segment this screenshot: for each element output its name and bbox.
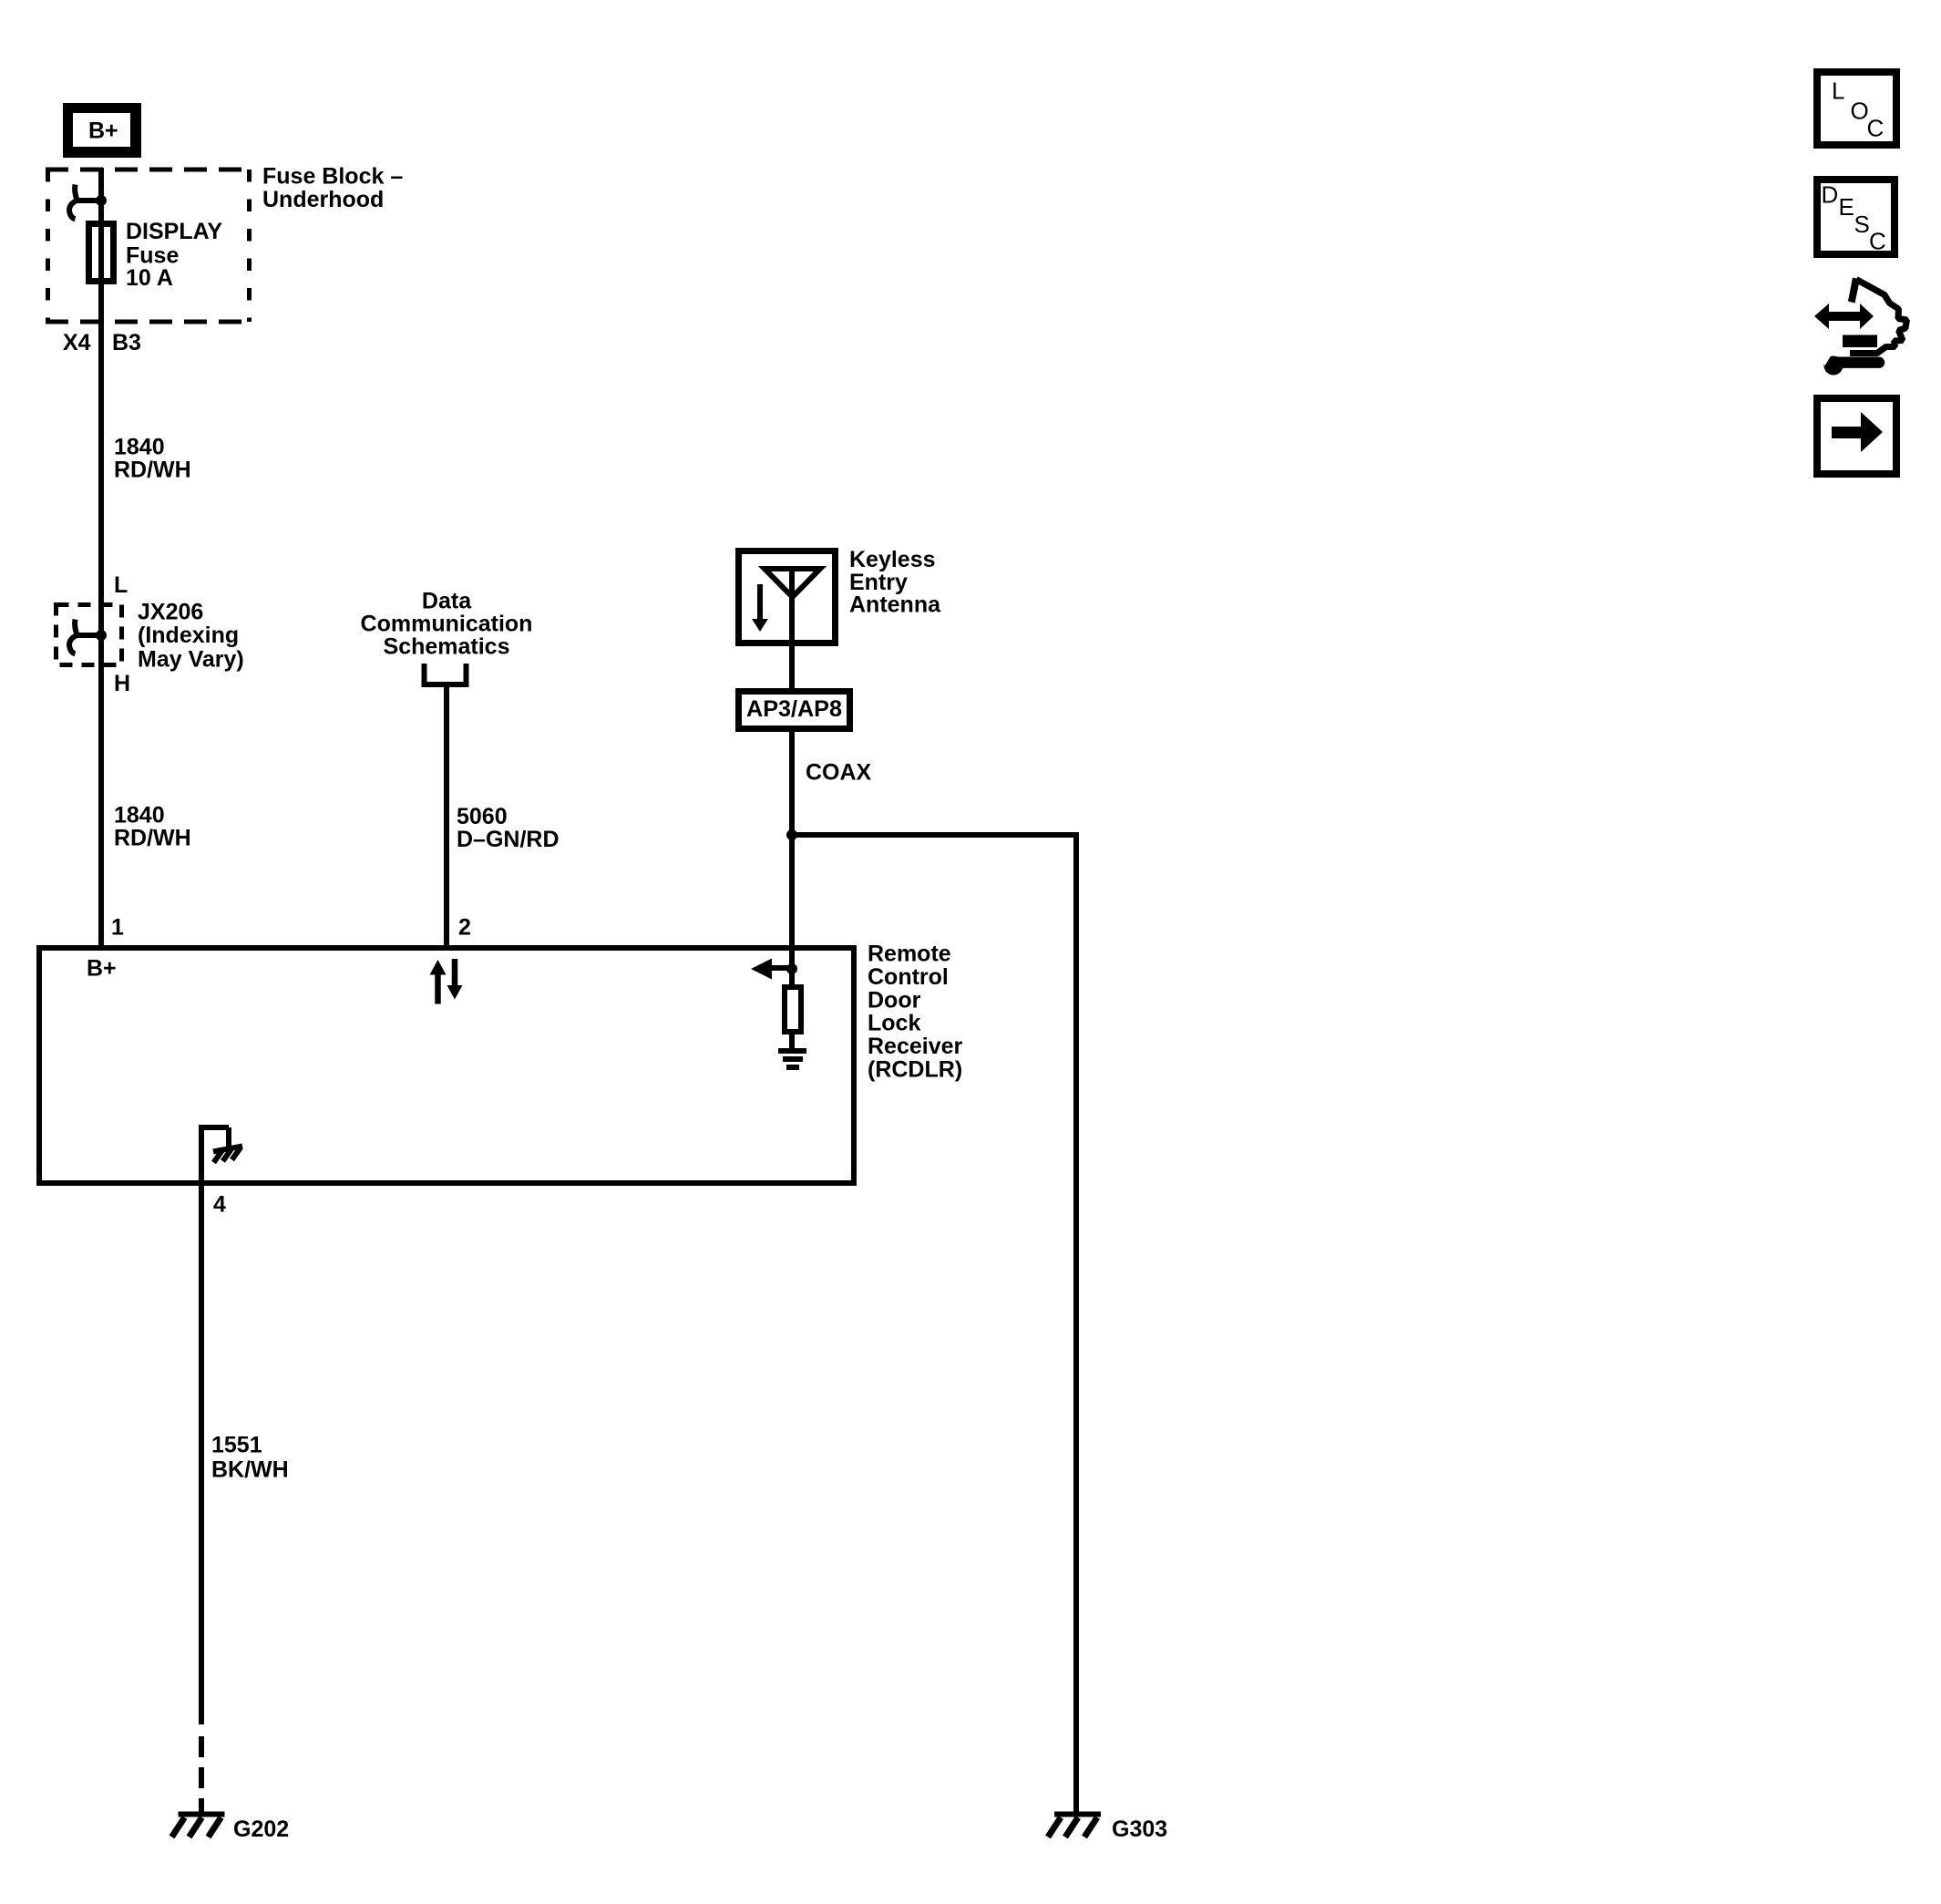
svg-text:Communication: Communication — [361, 612, 533, 637]
svg-text:L: L — [1832, 77, 1844, 105]
svg-text:Schematics: Schematics — [384, 634, 510, 660]
svg-text:Underhood: Underhood — [262, 187, 384, 212]
svg-text:2: 2 — [458, 915, 471, 941]
svg-text:1: 1 — [111, 915, 124, 941]
svg-text:Keyless: Keyless — [849, 547, 936, 572]
svg-text:DISPLAY: DISPLAY — [126, 219, 222, 244]
svg-text:Door: Door — [868, 987, 921, 1013]
svg-text:C: C — [1869, 228, 1886, 255]
svg-text:X4: X4 — [63, 330, 91, 355]
svg-text:RD/WH: RD/WH — [114, 458, 191, 483]
svg-text:B+: B+ — [88, 118, 118, 144]
svg-text:COAX: COAX — [806, 760, 872, 786]
svg-text:Remote: Remote — [868, 942, 951, 967]
svg-text:Lock: Lock — [868, 1011, 920, 1036]
svg-text:S: S — [1854, 211, 1870, 238]
svg-text:D–GN/RD: D–GN/RD — [457, 827, 560, 852]
svg-text:1840: 1840 — [114, 803, 165, 828]
svg-text:JX206: JX206 — [138, 600, 203, 625]
svg-text:H: H — [114, 671, 130, 696]
svg-text:G303: G303 — [1112, 1817, 1167, 1842]
svg-text:E: E — [1839, 193, 1854, 221]
svg-text:G202: G202 — [233, 1817, 289, 1842]
svg-text:4: 4 — [213, 1192, 226, 1218]
svg-text:D: D — [1822, 181, 1839, 209]
svg-text:Data: Data — [422, 588, 472, 613]
svg-text:May Vary): May Vary) — [138, 647, 244, 673]
svg-text:5060: 5060 — [457, 804, 508, 829]
svg-text:10 A: 10 A — [126, 265, 173, 291]
svg-text:B+: B+ — [87, 956, 117, 982]
svg-text:Fuse Block –: Fuse Block – — [262, 163, 403, 189]
svg-text:1840: 1840 — [114, 435, 165, 460]
svg-text:1551: 1551 — [211, 1432, 262, 1457]
svg-text:Antenna: Antenna — [849, 592, 941, 618]
svg-text:Receiver: Receiver — [868, 1034, 963, 1059]
svg-text:L: L — [114, 572, 128, 598]
svg-text:RD/WH: RD/WH — [114, 826, 191, 851]
svg-text:BK/WH: BK/WH — [211, 1457, 289, 1483]
svg-text:AP3/AP8: AP3/AP8 — [746, 696, 842, 722]
svg-text:C: C — [1867, 115, 1885, 142]
svg-text:B3: B3 — [112, 330, 141, 355]
svg-text:Control: Control — [868, 964, 949, 990]
svg-text:(Indexing: (Indexing — [138, 623, 239, 648]
svg-text:(RCDLR): (RCDLR) — [868, 1057, 962, 1083]
